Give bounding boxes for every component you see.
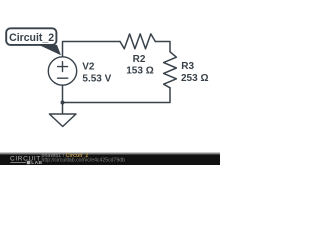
wire R3 bottom to junction <box>63 88 171 103</box>
wire top from V2 to corner <box>63 42 121 57</box>
svg-text:Circuit_2: Circuit_2 <box>9 32 54 44</box>
resistor R2 <box>120 34 155 49</box>
ground <box>49 114 76 127</box>
plus sign <box>58 62 68 72</box>
node junction <box>61 101 65 105</box>
svg-text:http://circuitlab.com/c/e4c425: http://circuitlab.com/c/e4c425cd79db <box>42 158 126 164</box>
svg-text:R2: R2 <box>133 54 146 65</box>
svg-text:253 Ω: 253 Ω <box>181 73 208 84</box>
voltage source V2 <box>48 57 76 85</box>
minus sign <box>58 77 68 79</box>
wire R2 to R3 corner <box>155 42 170 52</box>
svg-text:V2: V2 <box>82 62 95 73</box>
resistor R3 <box>164 52 177 88</box>
label Circuit_2 callout tail <box>39 45 61 55</box>
wire V2 bottom to ground <box>62 85 64 114</box>
svg-text:R3: R3 <box>181 61 194 72</box>
watermark logo LAB icon <box>27 161 30 164</box>
svg-text:5.53 V: 5.53 V <box>82 74 111 85</box>
svg-text:153 Ω: 153 Ω <box>126 66 153 77</box>
label Circuit_2 box <box>6 28 56 45</box>
watermark logo LAB line <box>10 162 25 164</box>
